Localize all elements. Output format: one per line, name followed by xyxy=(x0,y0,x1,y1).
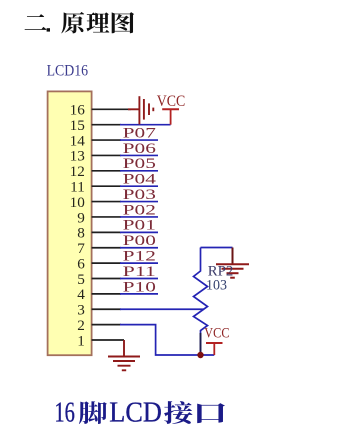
svg-text:103: 103 xyxy=(206,277,227,293)
pin 15 of LCD16 xyxy=(70,117,121,134)
svg-text:P11: P11 xyxy=(123,264,156,280)
wire net P01 xyxy=(120,231,158,233)
wire net P12 xyxy=(120,262,158,264)
resistor RP2 103 xyxy=(194,248,208,356)
pin 4 of LCD16 xyxy=(77,286,121,303)
wire net P02 xyxy=(120,216,158,218)
wire net P04 xyxy=(120,185,158,187)
pin 12 of LCD16 xyxy=(70,163,121,180)
wire net P07 xyxy=(120,139,158,141)
wire pin3 to RP2 xyxy=(120,308,204,310)
power port VCC (bottom) xyxy=(204,326,229,355)
pin 11 of LCD16 xyxy=(70,179,121,196)
ground (rotated) on pin 16 xyxy=(128,96,153,124)
svg-text:P00: P00 xyxy=(123,233,156,249)
pin 13 of LCD16 xyxy=(70,148,121,165)
pin 2 of LCD16 xyxy=(77,317,121,334)
wire net P05 xyxy=(120,170,158,172)
wire net P10 xyxy=(120,293,158,295)
svg-text:LCD16: LCD16 xyxy=(47,63,89,80)
pin 3 of LCD16 xyxy=(77,302,121,319)
wire net P11 xyxy=(120,277,158,279)
svg-text:P10: P10 xyxy=(123,279,156,295)
pin 9 of LCD16 xyxy=(77,209,121,226)
svg-text:P12: P12 xyxy=(123,249,156,265)
caption "16脚LCD接口" xyxy=(54,398,225,429)
wire net P00 xyxy=(120,247,158,249)
svg-text:1: 1 xyxy=(77,332,85,349)
pin 8 of LCD16 xyxy=(77,225,121,242)
wire pin2 to bottom node xyxy=(120,325,214,355)
ground (top right, RP2) xyxy=(216,248,249,278)
connector LCD16 body xyxy=(48,91,92,355)
svg-text:P05: P05 xyxy=(123,156,156,172)
svg-text:P02: P02 xyxy=(123,202,156,218)
svg-text:P06: P06 xyxy=(123,141,156,157)
svg-text:LCD: LCD xyxy=(109,398,162,429)
svg-text:16: 16 xyxy=(54,398,75,429)
wire pin15 to VCC xyxy=(120,124,171,126)
page title "二. 原理图" xyxy=(25,12,135,34)
wire RP2 top to ground xyxy=(201,247,233,249)
pin 14 of LCD16 xyxy=(70,132,121,149)
svg-text:VCC: VCC xyxy=(204,326,229,342)
junction node xyxy=(197,352,203,358)
pin 7 of LCD16 xyxy=(77,240,121,257)
svg-text:P01: P01 xyxy=(123,218,156,234)
svg-text:P07: P07 xyxy=(123,125,156,141)
ground on pin 1 xyxy=(108,340,140,370)
pin 1 of LCD16 xyxy=(77,332,124,349)
wire net P03 xyxy=(120,201,158,203)
wire RP2 bottom lead xyxy=(200,333,202,355)
pin 16 of LCD16 xyxy=(70,102,131,119)
pin 6 of LCD16 xyxy=(77,255,121,272)
pin 5 of LCD16 xyxy=(77,271,121,288)
wire net P06 xyxy=(120,154,158,156)
pin 10 of LCD16 xyxy=(70,194,121,211)
svg-text:VCC: VCC xyxy=(157,93,186,110)
power port VCC (top) xyxy=(157,93,186,125)
svg-text:P03: P03 xyxy=(123,187,156,203)
svg-text:P04: P04 xyxy=(123,172,156,188)
